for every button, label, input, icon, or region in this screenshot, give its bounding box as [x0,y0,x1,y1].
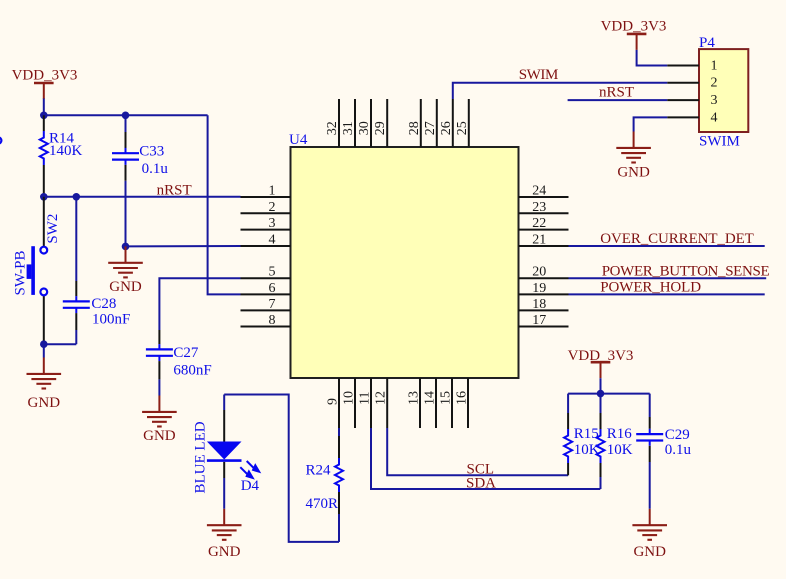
svg-text:GND: GND [143,428,176,444]
node junction C28 top [73,193,81,201]
wire P4 pin4 to ground [634,117,668,131]
wire OVER_CURRENT_DET [569,245,765,247]
svg-text:SDA: SDA [466,475,496,491]
wire nRST to P4 pin3 [568,99,668,101]
svg-text:470R: 470R [306,496,339,512]
svg-text:D4: D4 [241,478,260,494]
wire POWER_BUTTON_SENSE [569,277,767,279]
pin 31 [354,99,356,147]
wire stub to ground [43,344,45,357]
wire nRST rail to pin1 [44,196,241,198]
svg-text:C29: C29 [665,427,690,443]
svg-text:100nF: 100nF [92,312,130,328]
wire vdd stem [600,378,602,393]
svg-text:26: 26 [439,121,454,135]
svg-text:24: 24 [532,184,546,199]
svg-text:28: 28 [407,121,422,135]
svg-text:C33: C33 [139,144,164,160]
pin 28 [420,99,422,147]
svg-text:GND: GND [617,165,650,181]
svg-text:1: 1 [269,184,276,199]
pin 4 [241,245,291,247]
svg-text:21: 21 [532,233,546,248]
node junction C33 bottom [122,243,130,251]
wire C33 bottom to pin4 [126,245,241,247]
capacitor C28 [63,197,131,344]
pin 18 [519,309,569,311]
svg-text:31: 31 [341,121,356,135]
svg-text:13: 13 [406,391,421,405]
pin 13 [419,378,421,428]
svg-text:R24: R24 [306,463,332,479]
capacitor C29 [636,394,691,509]
pin 3 [241,229,291,231]
svg-text:SWIM: SWIM [519,67,558,83]
svg-text:10K: 10K [574,442,600,458]
svg-text:30: 30 [357,121,372,135]
right pin numbers [532,184,546,329]
svg-text:18: 18 [532,297,546,312]
wire vdd to rail [43,99,45,116]
svg-text:0.1u: 0.1u [665,442,692,458]
wire top-left horizontal rail [44,114,208,116]
pin 1 [241,196,291,198]
svg-text:0.1u: 0.1u [142,161,169,177]
pin 23 [519,212,569,214]
node junction at C33 top [122,112,130,120]
node junction SW2 top [40,193,48,201]
ground under C33 [108,246,143,295]
pin 9 [338,378,340,428]
svg-text:14: 14 [422,391,437,405]
svg-text:16: 16 [454,391,469,405]
op-amp U4 body [291,147,519,378]
pin 21 [519,245,569,247]
left pin numbers [269,184,276,329]
svg-text:2: 2 [269,200,276,215]
svg-text:9: 9 [325,398,340,405]
pin 26 [452,99,454,147]
svg-text:23: 23 [532,200,546,215]
pin 2 [241,212,291,214]
svg-text:C27: C27 [173,345,199,361]
svg-text:U4: U4 [289,132,308,148]
svg-text:BLUE LED: BLUE LED [192,421,208,493]
pin 14 [435,378,437,428]
svg-text:15: 15 [438,391,453,405]
pin 12 [386,378,388,428]
resistor R16 [597,394,633,489]
svg-text:20: 20 [532,265,546,280]
svg-text:140K: 140K [49,143,83,159]
svg-text:10K: 10K [607,442,633,458]
pin 24 [519,196,569,198]
svg-text:SW2: SW2 [45,214,61,244]
svg-text:680nF: 680nF [173,363,211,379]
svg-text:GND: GND [28,395,61,411]
resistor R14 [40,115,83,197]
wire SW2 bottom to C28 bottom [44,343,77,345]
pin 29 [386,99,388,147]
ground under LED [207,509,242,560]
node junction at R14 top [40,112,48,120]
top pin numbers [325,121,470,135]
pin 30 [370,99,372,147]
svg-text:10: 10 [341,391,356,405]
P4 pins [667,66,699,118]
svg-text:25: 25 [455,121,470,135]
resistor R15 [564,394,600,476]
P4 pin numbers [711,58,718,125]
power VDD_3V3 bottom right [568,348,634,378]
node junction SW2 bottom [40,340,48,348]
svg-text:1: 1 [711,58,718,73]
power VDD_3V3 at P4 [601,18,667,50]
power VDD_3V3 (top left) [12,68,78,100]
ground under P4 [616,132,651,181]
svg-text:2: 2 [711,76,718,91]
stray clipped label at left edge [0,137,1,143]
svg-text:R15: R15 [574,426,599,442]
wire SWIM from pin26 [453,83,668,99]
svg-text:4: 4 [269,233,276,248]
pin 5 [241,277,291,279]
svg-text:32: 32 [325,121,340,135]
svg-text:R16: R16 [607,426,633,442]
wire SDA from pin11 [371,428,600,489]
capacitor C33 [112,115,168,246]
svg-text:8: 8 [269,313,276,328]
wire pin5 to C27 [159,278,240,330]
pin 17 [519,326,569,328]
resistor R24 [306,428,344,542]
svg-text:11: 11 [357,392,372,405]
svg-text:GND: GND [208,544,241,560]
pin 19 [519,293,569,295]
U4 left pins [241,197,291,327]
svg-text:7: 7 [269,297,276,312]
pin 20 [519,277,569,279]
pin 32 [338,99,340,147]
svg-text:6: 6 [269,281,276,296]
LED arrows [240,461,259,478]
wire SCL from pin12 [387,428,568,475]
LED D4 [192,395,259,509]
pin 11 [370,378,372,428]
svg-text:GND: GND [109,279,142,295]
pin 8 [241,326,291,328]
pin 10 [354,378,356,428]
ground under SW2 [27,358,62,412]
wire VDD to P4 pin1 [637,50,668,66]
U4 bottom pins [339,378,468,428]
pin 16 [467,378,469,428]
node junction VDD rail [597,390,605,398]
ground under C29 [632,509,667,560]
svg-text:SWIM: SWIM [699,133,740,149]
capacitor C27 [146,330,212,396]
svg-text:POWER_HOLD: POWER_HOLD [600,279,701,295]
wire top rail R15-C29 [568,393,650,395]
wire POWER_HOLD [569,293,765,295]
pin 27 [436,99,438,147]
transistor SW2 leads [43,197,45,344]
pin 22 [519,229,569,231]
svg-text:12: 12 [374,391,389,405]
wire vertical to pin6 [208,115,241,294]
pin 7 [241,309,291,311]
svg-text:4: 4 [711,110,718,125]
pin 15 [451,378,453,428]
svg-text:5: 5 [269,265,276,280]
svg-text:P4: P4 [699,35,715,51]
svg-text:C28: C28 [91,296,116,312]
svg-text:nRST: nRST [599,85,634,101]
switch SW2 contacts [40,247,47,296]
svg-text:SW-PB: SW-PB [13,250,29,295]
U4 top pins [339,99,469,147]
svg-text:nRST: nRST [157,182,192,198]
svg-text:3: 3 [269,216,276,231]
pin 25 [468,99,470,147]
ground under C27 [142,396,177,445]
svg-text:GND: GND [633,544,666,560]
pin 6 [241,293,291,295]
bottom pin numbers [325,391,469,405]
connector P4 body [699,49,748,132]
wire pin9..R24..loop [224,395,339,542]
switch SW2 plunger [27,246,35,295]
svg-text:VDD_3V3: VDD_3V3 [601,18,667,34]
U4 right pins [519,197,569,327]
svg-text:22: 22 [532,216,546,231]
svg-text:27: 27 [423,121,438,135]
svg-text:POWER_BUTTON_SENSE: POWER_BUTTON_SENSE [602,263,770,279]
svg-text:17: 17 [532,313,546,328]
svg-text:29: 29 [373,121,388,135]
svg-text:OVER_CURRENT_DET: OVER_CURRENT_DET [600,231,753,247]
svg-text:VDD_3V3: VDD_3V3 [12,68,78,84]
svg-text:3: 3 [711,93,718,108]
svg-text:19: 19 [532,281,546,296]
